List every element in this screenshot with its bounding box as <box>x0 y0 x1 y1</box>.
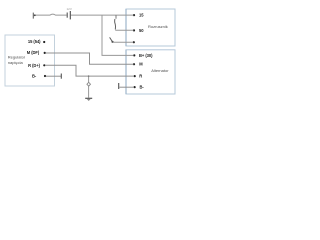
switch S1 blade <box>114 19 117 30</box>
alternator box <box>126 50 175 94</box>
svg-text:M (DF): M (DF) <box>27 50 40 55</box>
svg-text:R (D+): R (D+) <box>28 63 41 68</box>
unlabeled terminal dot <box>133 41 135 43</box>
connector diamond <box>87 82 91 86</box>
ground bar <box>85 97 92 99</box>
battery B1 long plate <box>69 11 71 19</box>
wire from battery node to B+ (30) <box>102 15 133 55</box>
terminal M (DF) dot <box>44 52 46 54</box>
ground triangle <box>87 99 91 101</box>
rozrusznik box left edge accent <box>125 9 127 46</box>
connector tick on B- stub <box>60 74 62 79</box>
terminal B+ (30) dot <box>133 54 135 56</box>
wire M (DF) to M <box>46 53 134 64</box>
svg-text:B-: B- <box>32 73 37 78</box>
node at wire start <box>34 14 36 16</box>
wire to unlabeled starter terminal <box>113 41 133 43</box>
wire battery feed left segment <box>33 13 66 16</box>
svg-text:B+ (30): B+ (30) <box>139 53 153 58</box>
terminal B- dot <box>134 86 136 88</box>
svg-text:50: 50 <box>139 28 144 33</box>
connector tick at wire start <box>32 13 34 19</box>
svg-text:R: R <box>139 74 142 79</box>
terminal 15 dot <box>133 14 135 16</box>
wire R (D+) to R <box>45 65 134 76</box>
regulator box <box>5 35 55 86</box>
svg-text:15: 15 <box>139 13 144 18</box>
terminal R dot <box>134 75 136 77</box>
wire battery feed right segment <box>71 14 134 16</box>
alternator box left edge accent <box>125 50 127 94</box>
rozrusznik box <box>126 9 175 46</box>
terminal B- dot <box>44 75 46 77</box>
switch S1 stem <box>115 15 117 19</box>
terminal M dot <box>133 63 135 65</box>
svg-text:Alternator: Alternator <box>151 68 169 73</box>
connector tick on alternator B- stub <box>118 83 120 89</box>
terminal R (D+) dot <box>43 64 45 66</box>
wire to terminal 50 <box>115 29 133 31</box>
terminal 15 (54) dot <box>43 41 45 43</box>
svg-text:Rozrusznik: Rozrusznik <box>148 24 168 29</box>
svg-text:12V: 12V <box>67 7 72 11</box>
terminal 50 dot <box>133 29 135 31</box>
switch S2 pivot blob <box>111 41 113 43</box>
svg-text:15 (54): 15 (54) <box>28 39 41 44</box>
svg-text:B-: B- <box>140 85 145 90</box>
svg-text:Regulator: Regulator <box>8 54 26 59</box>
switch S2 blade <box>110 37 113 41</box>
battery B1 short plate <box>66 13 68 18</box>
ground branch wire <box>88 76 90 98</box>
wire B- stub from regulator <box>46 75 61 77</box>
svg-text:napięcia: napięcia <box>8 60 24 65</box>
wire B- stub to alternator <box>119 86 134 88</box>
junction on R wire <box>88 75 90 77</box>
